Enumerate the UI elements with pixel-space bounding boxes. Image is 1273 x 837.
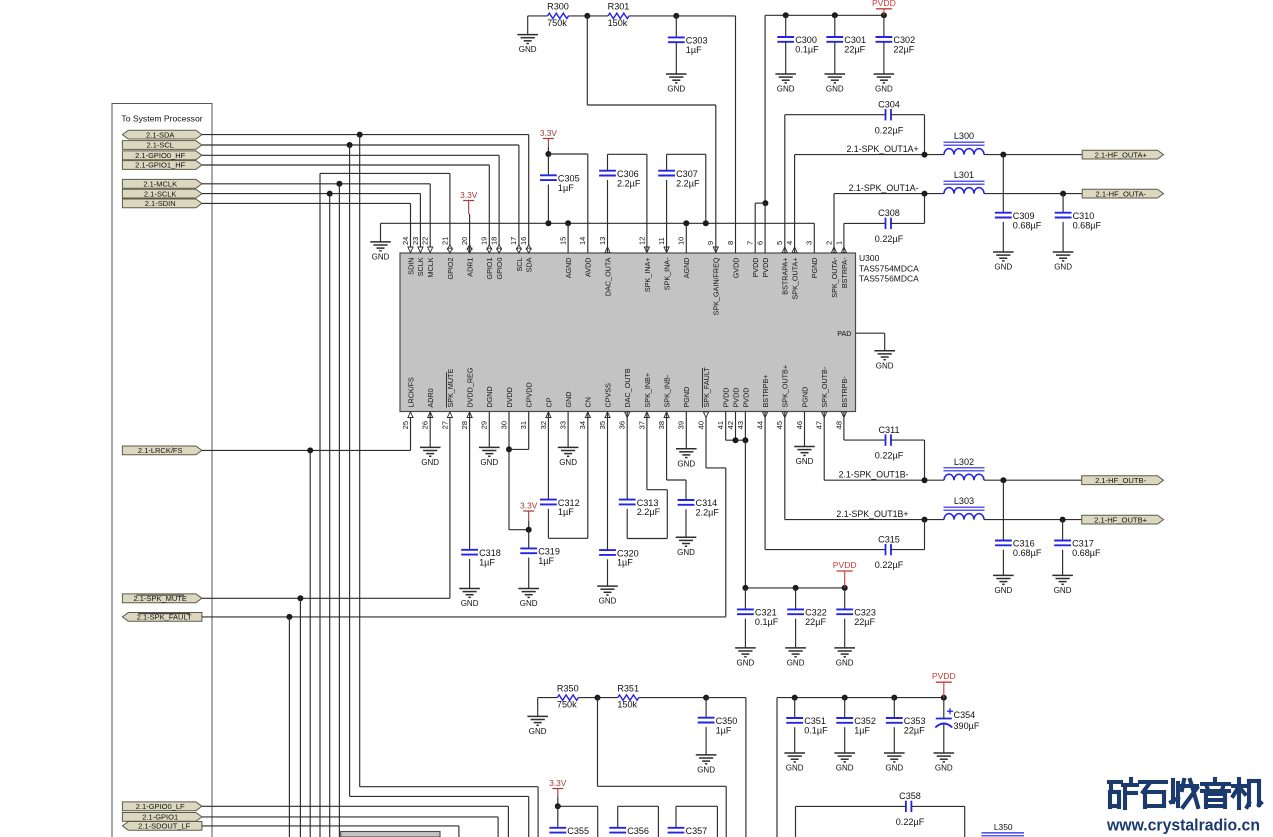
svg-text:3.3V: 3.3V bbox=[460, 190, 478, 200]
svg-text:PVDD: PVDD bbox=[731, 388, 740, 408]
svg-text:DAC_OUTB: DAC_OUTB bbox=[623, 368, 632, 407]
svg-text:L301: L301 bbox=[954, 170, 974, 180]
svg-text:12: 12 bbox=[637, 237, 646, 245]
svg-text:150k: 150k bbox=[608, 18, 628, 28]
svg-text:SPK_OUTA-: SPK_OUTA- bbox=[830, 257, 839, 298]
svg-text:2.1-SPK_OUT1A+: 2.1-SPK_OUT1A+ bbox=[846, 144, 918, 154]
svg-text:SCL: SCL bbox=[515, 257, 524, 271]
svg-text:1µF: 1µF bbox=[558, 183, 574, 193]
svg-text:GND: GND bbox=[559, 458, 577, 467]
svg-text:43: 43 bbox=[736, 421, 745, 429]
svg-text:C304: C304 bbox=[878, 100, 900, 110]
svg-text:SPK_MUTE: SPK_MUTE bbox=[446, 369, 455, 408]
svg-text:18: 18 bbox=[490, 237, 499, 245]
svg-text:37: 37 bbox=[637, 421, 646, 429]
svg-text:GND: GND bbox=[519, 45, 537, 54]
svg-text:SPK_OUTB+: SPK_OUTB+ bbox=[781, 365, 790, 408]
svg-text:2.1-SCLK: 2.1-SCLK bbox=[144, 189, 177, 198]
svg-text:GND: GND bbox=[520, 599, 538, 608]
svg-text:2.1-SDOUT_LF: 2.1-SDOUT_LF bbox=[138, 822, 191, 831]
svg-text:GND: GND bbox=[480, 458, 498, 467]
svg-text:0.22µF: 0.22µF bbox=[875, 234, 904, 244]
svg-text:GND: GND bbox=[1054, 263, 1072, 272]
svg-text:GND: GND bbox=[935, 764, 953, 773]
svg-text:2.1-SPK_OUT1B-: 2.1-SPK_OUT1B- bbox=[839, 470, 909, 480]
svg-text:R351: R351 bbox=[617, 683, 639, 693]
svg-text:SPK_INB+: SPK_INB+ bbox=[643, 373, 652, 408]
svg-text:45: 45 bbox=[775, 421, 784, 429]
svg-text:1µF: 1µF bbox=[617, 558, 633, 568]
svg-text:32: 32 bbox=[539, 421, 548, 429]
svg-text:0.1µF: 0.1µF bbox=[755, 617, 779, 627]
svg-text:0.1µF: 0.1µF bbox=[795, 45, 819, 55]
svg-text:150k: 150k bbox=[617, 700, 637, 710]
svg-text:SPK_INA+: SPK_INA+ bbox=[643, 258, 652, 293]
svg-text:To System Processor: To System Processor bbox=[121, 114, 202, 124]
svg-text:27: 27 bbox=[440, 421, 449, 429]
svg-text:GND: GND bbox=[994, 263, 1012, 272]
svg-text:R350: R350 bbox=[557, 683, 579, 693]
svg-text:CPVSS: CPVSS bbox=[603, 383, 612, 408]
svg-text:22µF: 22µF bbox=[893, 45, 914, 55]
svg-text:L303: L303 bbox=[954, 496, 974, 506]
svg-text:13: 13 bbox=[598, 237, 607, 245]
svg-text:33: 33 bbox=[559, 421, 568, 429]
svg-text:1µF: 1µF bbox=[538, 556, 554, 566]
svg-text:GND: GND bbox=[787, 659, 805, 668]
svg-text:TAS5754MDCA: TAS5754MDCA bbox=[859, 264, 919, 274]
svg-text:GND: GND bbox=[836, 764, 854, 773]
svg-text:DGND: DGND bbox=[485, 386, 494, 407]
svg-text:AGND: AGND bbox=[682, 258, 691, 279]
svg-text:C315: C315 bbox=[878, 534, 900, 544]
svg-text:4: 4 bbox=[785, 241, 794, 245]
svg-text:34: 34 bbox=[578, 421, 587, 429]
svg-text:GPIO0: GPIO0 bbox=[495, 258, 504, 280]
svg-text:BSTRPA-: BSTRPA- bbox=[840, 257, 849, 288]
svg-text:PVDD: PVDD bbox=[751, 258, 760, 278]
svg-text:22µF: 22µF bbox=[904, 726, 925, 736]
svg-text:CN: CN bbox=[584, 397, 593, 407]
svg-text:3.3V: 3.3V bbox=[549, 778, 567, 788]
svg-text:2.2µF: 2.2µF bbox=[696, 508, 720, 518]
svg-text:2.1-SPK_OUT1B+: 2.1-SPK_OUT1B+ bbox=[836, 509, 908, 519]
svg-text:31: 31 bbox=[519, 421, 528, 429]
svg-text:C354: C354 bbox=[954, 710, 976, 720]
svg-text:SPK_OUTA+: SPK_OUTA+ bbox=[791, 258, 800, 300]
svg-text:SPK_OUTB-: SPK_OUTB- bbox=[820, 366, 829, 407]
svg-text:2.1-SCL: 2.1-SCL bbox=[146, 141, 174, 150]
svg-text:0.68µF: 0.68µF bbox=[1072, 548, 1101, 558]
svg-text:PVDD: PVDD bbox=[833, 560, 857, 570]
svg-text:30: 30 bbox=[499, 421, 508, 429]
svg-text:35: 35 bbox=[598, 421, 607, 429]
svg-text:2.1-HF_OUTB-: 2.1-HF_OUTB- bbox=[1095, 476, 1147, 485]
svg-text:GND: GND bbox=[697, 766, 715, 775]
svg-text:SPK_FAULT: SPK_FAULT bbox=[702, 367, 711, 408]
svg-text:PVDD: PVDD bbox=[722, 388, 731, 408]
svg-text:ADR0: ADR0 bbox=[426, 388, 435, 407]
svg-text:15: 15 bbox=[559, 237, 568, 245]
svg-text:19: 19 bbox=[480, 237, 489, 245]
svg-text:6: 6 bbox=[756, 241, 765, 245]
svg-text:22: 22 bbox=[421, 237, 430, 245]
svg-text:48: 48 bbox=[834, 421, 843, 429]
svg-text:1µF: 1µF bbox=[479, 557, 495, 567]
svg-text:www.crystalradio.cn: www.crystalradio.cn bbox=[1106, 817, 1260, 835]
svg-text:22µF: 22µF bbox=[805, 617, 826, 627]
svg-text:21: 21 bbox=[440, 237, 449, 245]
svg-text:3.3V: 3.3V bbox=[520, 501, 538, 511]
svg-text:0.22µF: 0.22µF bbox=[875, 560, 904, 570]
svg-text:PVDD: PVDD bbox=[932, 671, 956, 681]
svg-text:7: 7 bbox=[746, 241, 755, 245]
svg-text:2.1-SDIN: 2.1-SDIN bbox=[145, 199, 176, 208]
svg-text:25: 25 bbox=[401, 421, 410, 429]
svg-text:0.68µF: 0.68µF bbox=[1013, 548, 1042, 558]
svg-text:L300: L300 bbox=[954, 131, 974, 141]
svg-text:GND: GND bbox=[876, 361, 894, 370]
svg-text:ADR1: ADR1 bbox=[466, 258, 475, 277]
svg-text:1µF: 1µF bbox=[558, 507, 574, 517]
svg-text:R301: R301 bbox=[608, 2, 630, 12]
svg-text:L350: L350 bbox=[994, 822, 1013, 832]
svg-text:PGND: PGND bbox=[682, 387, 691, 408]
svg-text:38: 38 bbox=[657, 421, 666, 429]
svg-text:2.1-HF_OUTA+: 2.1-HF_OUTA+ bbox=[1095, 150, 1148, 159]
svg-text:2: 2 bbox=[824, 241, 833, 245]
svg-text:11: 11 bbox=[657, 237, 666, 245]
svg-text:SPK_INA-: SPK_INA- bbox=[663, 257, 672, 290]
svg-text:GND: GND bbox=[875, 85, 893, 94]
svg-text:47: 47 bbox=[815, 421, 824, 429]
svg-text:C311: C311 bbox=[878, 425, 899, 435]
svg-text:2.2µF: 2.2µF bbox=[617, 178, 641, 188]
svg-text:GND: GND bbox=[836, 659, 854, 668]
svg-text:SCLK: SCLK bbox=[416, 257, 425, 276]
svg-text:BSTRPB+: BSTRPB+ bbox=[761, 375, 770, 408]
svg-text:PVDD: PVDD bbox=[872, 0, 896, 8]
svg-text:2.1-LRCK/FS: 2.1-LRCK/FS bbox=[138, 446, 183, 455]
svg-text:SDIN: SDIN bbox=[406, 258, 415, 275]
svg-text:0.68µF: 0.68µF bbox=[1073, 220, 1102, 230]
svg-text:GND: GND bbox=[677, 459, 695, 468]
svg-text:29: 29 bbox=[480, 421, 489, 429]
svg-text:26: 26 bbox=[421, 421, 430, 429]
svg-text:GND: GND bbox=[995, 586, 1013, 595]
svg-text:750k: 750k bbox=[547, 18, 567, 28]
svg-text:GND: GND bbox=[796, 457, 814, 466]
svg-text:GND: GND bbox=[826, 85, 844, 94]
svg-text:GND: GND bbox=[461, 599, 479, 608]
svg-text:GND: GND bbox=[777, 85, 795, 94]
svg-text:44: 44 bbox=[756, 421, 765, 429]
svg-text:0.1µF: 0.1µF bbox=[804, 726, 828, 736]
svg-text:C355: C355 bbox=[567, 826, 589, 836]
svg-text:16: 16 bbox=[519, 237, 528, 245]
svg-text:0.68µF: 0.68µF bbox=[1013, 220, 1042, 230]
svg-text:C356: C356 bbox=[627, 826, 649, 836]
svg-text:2.1-GPIO0_HF: 2.1-GPIO0_HF bbox=[135, 151, 185, 160]
svg-text:DVDD: DVDD bbox=[505, 387, 514, 407]
svg-text:SDA: SDA bbox=[525, 257, 534, 272]
svg-text:390µF: 390µF bbox=[954, 721, 980, 731]
svg-text:CP: CP bbox=[544, 397, 553, 407]
svg-text:AVDD: AVDD bbox=[584, 258, 593, 277]
svg-text:2.1-SDA: 2.1-SDA bbox=[146, 130, 174, 139]
svg-text:GND: GND bbox=[1054, 586, 1072, 595]
svg-text:PVDD: PVDD bbox=[761, 258, 770, 278]
svg-text:1µF: 1µF bbox=[716, 725, 732, 735]
svg-text:2.1-SPK_OUT1A-: 2.1-SPK_OUT1A- bbox=[849, 183, 919, 193]
svg-text:L302: L302 bbox=[954, 457, 974, 467]
svg-text:2.1-HF_OUTB+: 2.1-HF_OUTB+ bbox=[1094, 515, 1148, 524]
svg-text:1µF: 1µF bbox=[686, 45, 702, 55]
svg-text:GND: GND bbox=[421, 458, 439, 467]
svg-text:CPVDD: CPVDD bbox=[525, 382, 534, 407]
svg-text:23: 23 bbox=[411, 237, 420, 245]
svg-text:GND: GND bbox=[372, 253, 390, 262]
svg-text:2.2µF: 2.2µF bbox=[637, 507, 661, 517]
svg-text:750k: 750k bbox=[557, 700, 577, 710]
svg-text:0.22µF: 0.22µF bbox=[875, 125, 904, 135]
svg-text:3.3V: 3.3V bbox=[540, 128, 558, 138]
svg-text:C308: C308 bbox=[878, 208, 900, 218]
svg-text:22µF: 22µF bbox=[854, 617, 875, 627]
svg-text:2.1-GPIO1: 2.1-GPIO1 bbox=[142, 813, 178, 822]
svg-text:0.22µF: 0.22µF bbox=[896, 817, 925, 827]
svg-text:GND: GND bbox=[599, 597, 617, 606]
svg-text:2.1-GPIO0_LF: 2.1-GPIO0_LF bbox=[136, 802, 185, 811]
svg-text:LRCK/FS: LRCK/FS bbox=[406, 377, 415, 408]
svg-text:GVDD: GVDD bbox=[731, 258, 740, 279]
svg-text:42: 42 bbox=[726, 421, 735, 429]
svg-text:C357: C357 bbox=[686, 826, 708, 836]
svg-text:2.2µF: 2.2µF bbox=[676, 178, 700, 188]
svg-text:BSTRPB-: BSTRPB- bbox=[840, 376, 849, 408]
svg-text:1µF: 1µF bbox=[854, 726, 870, 736]
svg-text:24: 24 bbox=[401, 237, 410, 245]
svg-text:0.22µF: 0.22µF bbox=[875, 451, 904, 461]
svg-text:14: 14 bbox=[578, 237, 587, 245]
svg-text:39: 39 bbox=[677, 421, 686, 429]
svg-text:GND: GND bbox=[737, 659, 755, 668]
svg-text:10: 10 bbox=[677, 237, 686, 245]
svg-text:PGND: PGND bbox=[800, 387, 809, 408]
svg-text:U300: U300 bbox=[859, 253, 880, 263]
svg-text:PGND: PGND bbox=[810, 258, 819, 279]
svg-text:C358: C358 bbox=[899, 791, 921, 801]
svg-text:22µF: 22µF bbox=[844, 45, 865, 55]
svg-text:GND: GND bbox=[667, 85, 685, 94]
svg-text:36: 36 bbox=[618, 421, 627, 429]
svg-text:41: 41 bbox=[716, 421, 725, 429]
svg-text:46: 46 bbox=[795, 421, 804, 429]
svg-text:SPK_GAIN/FREQ: SPK_GAIN/FREQ bbox=[712, 257, 721, 315]
svg-text:DVDD_REG: DVDD_REG bbox=[466, 367, 475, 407]
svg-text:20: 20 bbox=[460, 237, 469, 245]
svg-text:GND: GND bbox=[677, 548, 695, 557]
svg-text:2.1-HF_OUTA-: 2.1-HF_OUTA- bbox=[1096, 189, 1147, 198]
svg-text:PAD: PAD bbox=[837, 329, 851, 338]
svg-text:9: 9 bbox=[706, 241, 715, 245]
svg-text:GND: GND bbox=[885, 764, 903, 773]
svg-text:DAC_OUTA: DAC_OUTA bbox=[603, 257, 612, 296]
svg-text:GPIO1: GPIO1 bbox=[485, 258, 494, 280]
svg-text:GND: GND bbox=[786, 764, 804, 773]
svg-text:2.1-GPIO1_HF: 2.1-GPIO1_HF bbox=[135, 161, 185, 170]
svg-text:2.1-MCLK: 2.1-MCLK bbox=[143, 180, 177, 189]
svg-text:BSTRAPA+: BSTRAPA+ bbox=[781, 258, 790, 295]
svg-text:SPK_INB-: SPK_INB- bbox=[663, 374, 672, 407]
svg-text:R300: R300 bbox=[547, 2, 569, 12]
svg-text:3: 3 bbox=[805, 241, 814, 245]
svg-text:1: 1 bbox=[834, 241, 843, 245]
svg-text:GND: GND bbox=[529, 727, 547, 736]
svg-text:PVDD: PVDD bbox=[741, 388, 750, 408]
svg-text:TAS5756MDCA: TAS5756MDCA bbox=[859, 274, 919, 284]
svg-text:28: 28 bbox=[460, 421, 469, 429]
svg-text:AGND: AGND bbox=[564, 258, 573, 279]
svg-text:5: 5 bbox=[775, 241, 784, 245]
svg-text:MCLK: MCLK bbox=[426, 257, 435, 277]
svg-text:GND: GND bbox=[564, 392, 573, 408]
svg-text:17: 17 bbox=[509, 237, 518, 245]
svg-text:GPIO2: GPIO2 bbox=[446, 258, 455, 280]
svg-text:40: 40 bbox=[696, 421, 705, 429]
svg-text:8: 8 bbox=[726, 241, 735, 245]
